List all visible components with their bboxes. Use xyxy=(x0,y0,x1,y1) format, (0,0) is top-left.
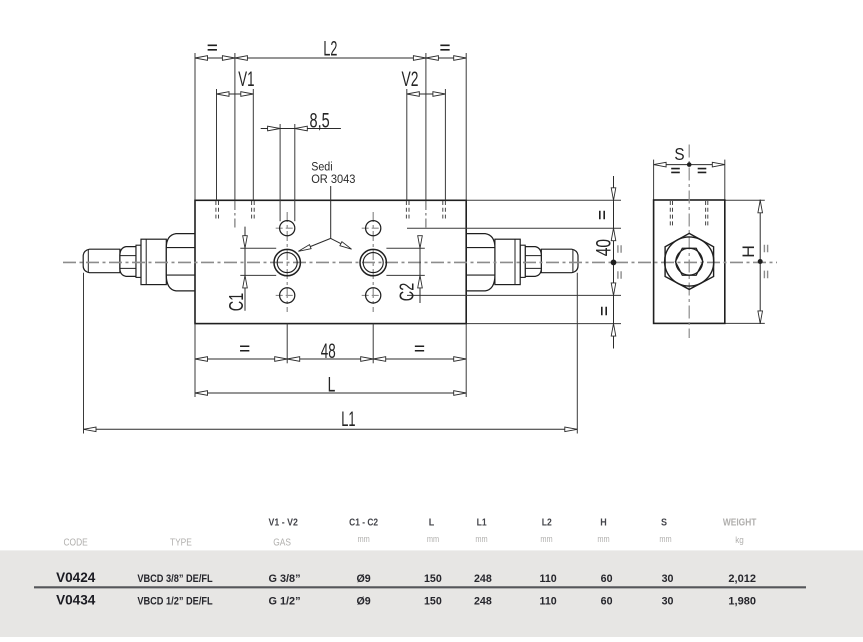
svg-text:L1: L1 xyxy=(477,517,487,528)
svg-text:V0434: V0434 xyxy=(56,593,96,608)
svg-text:WEIGHT: WEIGHT xyxy=(723,517,757,528)
svg-text:L2: L2 xyxy=(542,517,552,528)
svg-text:mm: mm xyxy=(659,534,671,544)
svg-text:40: 40 xyxy=(591,239,615,256)
svg-text:V1 - V2: V1 - V2 xyxy=(269,516,298,528)
svg-text:L2: L2 xyxy=(323,36,337,60)
svg-text:L1: L1 xyxy=(341,406,355,430)
svg-text:2,012: 2,012 xyxy=(728,573,756,585)
svg-text:C2: C2 xyxy=(395,283,418,301)
svg-text:VBCD 1/2” DE/FL: VBCD 1/2” DE/FL xyxy=(137,596,212,608)
svg-text:VBCD 3/8” DE/FL: VBCD 3/8” DE/FL xyxy=(137,574,212,586)
svg-text:S: S xyxy=(674,144,684,164)
svg-text:mm: mm xyxy=(427,534,439,544)
svg-text:S: S xyxy=(661,517,667,529)
svg-text:L: L xyxy=(328,372,336,396)
svg-text:48: 48 xyxy=(321,339,336,363)
svg-text:8,5: 8,5 xyxy=(310,109,330,132)
svg-text:248: 248 xyxy=(474,596,492,608)
svg-text:H: H xyxy=(738,245,758,258)
svg-text:150: 150 xyxy=(424,573,442,585)
svg-text:C1 - C2: C1 - C2 xyxy=(349,517,378,528)
svg-text:Ø9: Ø9 xyxy=(356,596,370,608)
svg-text:mm: mm xyxy=(597,534,609,544)
svg-text:G 3/8”: G 3/8” xyxy=(268,573,300,585)
svg-text:TYPE: TYPE xyxy=(170,537,192,548)
svg-text:V0424: V0424 xyxy=(56,570,96,585)
svg-text:1,980: 1,980 xyxy=(728,596,756,608)
svg-text:V1: V1 xyxy=(238,67,254,91)
svg-text:L: L xyxy=(429,517,435,529)
svg-text:kg: kg xyxy=(735,535,744,546)
svg-text:248: 248 xyxy=(474,573,492,585)
svg-text:30: 30 xyxy=(662,596,674,608)
svg-text:60: 60 xyxy=(601,596,613,608)
svg-text:OR 3043: OR 3043 xyxy=(311,172,355,186)
svg-text:Ø9: Ø9 xyxy=(356,573,370,585)
svg-text:30: 30 xyxy=(662,573,674,585)
svg-text:mm: mm xyxy=(357,534,369,544)
svg-text:110: 110 xyxy=(539,573,556,585)
svg-text:C1: C1 xyxy=(225,293,248,311)
svg-text:CODE: CODE xyxy=(63,537,87,548)
svg-text:110: 110 xyxy=(539,596,556,608)
svg-text:mm: mm xyxy=(475,534,487,544)
svg-text:GAS: GAS xyxy=(273,537,291,548)
svg-text:H: H xyxy=(600,517,607,529)
svg-text:G 1/2”: G 1/2” xyxy=(268,596,300,608)
svg-text:60: 60 xyxy=(601,573,613,585)
svg-text:V2: V2 xyxy=(402,67,419,91)
svg-text:mm: mm xyxy=(540,534,552,544)
svg-text:150: 150 xyxy=(424,596,442,608)
